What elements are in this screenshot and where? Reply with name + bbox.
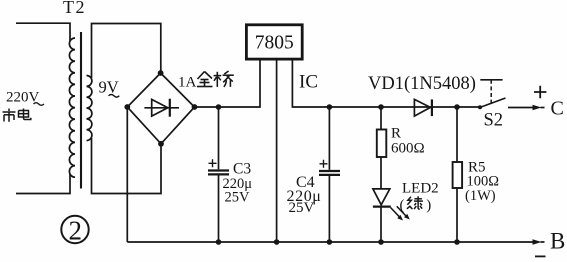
svg-text:9V: 9V (99, 78, 119, 97)
bridge rectifier diamond (127, 73, 194, 144)
transformer T2 primary winding (69, 38, 75, 177)
transformer T2 core (80, 32, 82, 189)
regulator output pin to rail (292, 59, 480, 107)
wire bottom rail stub (541, 241, 545, 243)
svg-text:R: R (391, 126, 401, 142)
arrowhead B (533, 239, 542, 244)
junction dot C4 bottom (327, 239, 333, 245)
node circled 2 (61, 216, 88, 243)
resistor R body (377, 130, 387, 158)
resistor R lead top (380, 107, 382, 130)
junction dot bridge right (192, 104, 198, 110)
label 绿 (green) (407, 196, 423, 209)
svg-text:(: ( (400, 198, 405, 214)
svg-text:1A: 1A (178, 75, 197, 91)
junction dot R top (378, 104, 384, 110)
wire bridge output to 7805 input (195, 59, 261, 107)
junction dot LED2 bottom (378, 239, 384, 245)
diode VD1 triangle (414, 99, 430, 116)
diode VD1 bar (431, 99, 433, 116)
junction dot C4 top (327, 104, 333, 110)
junction dot R5 bottom (454, 239, 460, 245)
svg-text:(1W): (1W) (465, 188, 496, 204)
switch S2 blade (480, 98, 506, 108)
junction dot bridge left (124, 104, 130, 110)
wire secondary top to bridge top (92, 24, 161, 79)
label 市电 (mains) : 电 (19, 109, 31, 120)
transformer T2 secondary winding (87, 76, 92, 141)
LED2 lead bottom (380, 207, 382, 242)
wire secondary bottom to bridge bottom (92, 138, 162, 194)
capacitor C4 lead top (328, 107, 330, 170)
LED2 emission arrow 2 (397, 206, 407, 216)
svg-text:T2: T2 (63, 0, 86, 17)
wire output C stub (541, 107, 545, 109)
svg-text:VD1(1N5408): VD1(1N5408) (368, 74, 476, 94)
bridge internal diode lead (144, 107, 179, 109)
label minus (535, 255, 546, 257)
LED2 triangle (373, 189, 390, 205)
junction dot C3 bottom (216, 239, 222, 245)
svg-text:): ) (426, 198, 431, 214)
wire primary bottom stub (16, 174, 70, 194)
resistor R5 body (453, 162, 463, 188)
capacitor C4 lead bottom (328, 176, 330, 242)
svg-text:25V: 25V (225, 190, 251, 206)
junction dot C3 top (216, 104, 222, 110)
wire output C line (508, 107, 534, 109)
junction dot bridge bottom (158, 141, 164, 147)
label 桥 (bridge) (214, 71, 234, 87)
bottom rail (127, 241, 533, 243)
svg-text:7805: 7805 (255, 33, 294, 54)
capacitor C3 lead bottom (218, 176, 220, 243)
bridge internal diode bar (169, 99, 171, 117)
label 9V tilde (109, 94, 120, 97)
capacitor C4 plates (319, 171, 340, 175)
bridge internal diode triangle (152, 99, 168, 116)
regulator ground pin to bottom rail (276, 59, 278, 242)
label 全 (bridge) (197, 72, 213, 87)
regulator 7805 box (246, 25, 302, 59)
svg-text:600Ω: 600Ω (391, 141, 425, 157)
svg-text:IC: IC (299, 72, 318, 93)
switch S2 pivot dot (478, 105, 482, 109)
switch S2 actuator dashed link (490, 80, 492, 104)
capacitor C4 plus sign (320, 160, 328, 168)
wire bridge negative (left corner) down to bottom rail (126, 107, 128, 242)
arrowhead C (533, 105, 542, 110)
LED2 emission arrow 1 (391, 208, 401, 218)
label 220V tilde (34, 103, 44, 106)
wire primary top stub (16, 23, 70, 41)
svg-text:C: C (551, 98, 564, 120)
switch S2 actuator bar (480, 79, 502, 81)
svg-text:S2: S2 (484, 111, 504, 131)
svg-text:2: 2 (68, 216, 82, 246)
svg-text:LED2: LED2 (402, 181, 439, 197)
resistor R5 lead bottom (456, 188, 458, 242)
capacitor C3 lead top (218, 107, 220, 169)
resistor R5 lead top (456, 107, 458, 162)
LED2 cathode bar (373, 206, 391, 208)
capacitor C3 plates (208, 171, 229, 175)
resistor R lead bottom / LED2 anode lead (380, 157, 382, 189)
junction dot bridge top (158, 70, 164, 76)
junction dot 7805 gnd bottom (274, 239, 280, 245)
svg-text:25V: 25V (289, 200, 315, 216)
label plus (534, 86, 546, 98)
junction dot R5 top (454, 104, 460, 110)
svg-text:B: B (550, 229, 565, 254)
capacitor C3 plus sign (209, 159, 217, 167)
label 市电 (mains) : 市 (3, 109, 16, 122)
